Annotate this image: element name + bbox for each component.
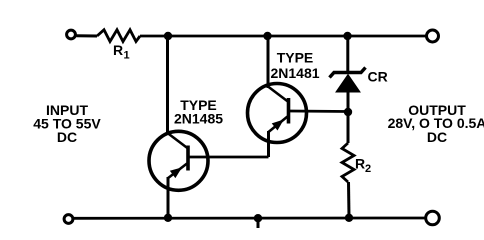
transistor Q2 collector stroke	[268, 87, 289, 103]
transistor Q2 emitter arrow	[273, 121, 282, 129]
input terminal bottom-left	[64, 215, 73, 224]
svg-text:2N1481: 2N1481	[270, 65, 319, 81]
transistor Q1 base bar	[186, 146, 190, 171]
resistor R1	[97, 30, 140, 42]
wire: CR to R2	[347, 91, 350, 143]
wire top rail: R1 to output terminal	[140, 35, 426, 38]
label TYPE 2N1481	[270, 50, 319, 82]
zener diode CR cathode bar	[330, 68, 366, 78]
transistor Q1 collector stroke	[168, 133, 189, 149]
label R1	[113, 42, 130, 62]
wire: stub below bottom rail	[257, 218, 260, 228]
input terminal top-left	[67, 30, 76, 39]
wire: R2 to bottom rail	[347, 182, 351, 217]
wire: Q2 emitter down to Q1 base net	[267, 131, 270, 157]
wire: Q1 emitter to bottom rail	[167, 177, 170, 217]
svg-text:2: 2	[365, 163, 371, 175]
svg-text:1: 1	[124, 50, 130, 62]
svg-text:DC: DC	[57, 129, 77, 145]
junction node: bottom rail / R2	[345, 214, 353, 222]
label INPUT 45 TO 55V DC	[33, 102, 101, 145]
transistor Q1 emitter arrow	[171, 169, 180, 177]
zener diode CR anode triangle	[336, 75, 360, 93]
wire: Q1 base to Q2 emitter	[188, 156, 269, 159]
label R2	[355, 156, 371, 176]
transistor Q2 TYPE 2N1481 body	[248, 84, 307, 143]
transistor Q1 emitter stroke	[168, 164, 188, 179]
label OUTPUT 28V O TO 0.5A DC	[388, 102, 484, 145]
wire: Q2 base lead	[289, 110, 348, 113]
wire: CR top lead	[346, 36, 349, 71]
svg-text:R: R	[113, 42, 123, 58]
svg-text:DC: DC	[427, 129, 447, 145]
junction node: top rail / Q1 collector	[164, 32, 172, 40]
svg-text:R: R	[355, 156, 365, 172]
svg-text:TYPE: TYPE	[277, 50, 314, 66]
junction node: bottom rail stub	[254, 214, 262, 222]
wire bottom rail	[74, 217, 425, 220]
transistor Q2 emitter stroke	[269, 117, 288, 133]
label TYPE 2N1485	[174, 97, 223, 127]
svg-text:2N1485: 2N1485	[174, 111, 223, 127]
svg-text:CR: CR	[368, 69, 388, 85]
transistor Q1 TYPE 2N1485 body	[149, 131, 208, 190]
wire: Q2 collector lead	[267, 36, 270, 88]
wire top rail: terminal to R1	[77, 34, 98, 37]
wire: Q1 collector lead	[166, 36, 169, 134]
transistor Q2 base bar	[287, 98, 291, 124]
resistor R2	[342, 143, 354, 182]
output terminal top-right	[427, 30, 439, 42]
junction node: bottom rail / Q1 emitter	[164, 214, 172, 222]
junction node: top rail / CR	[343, 32, 351, 40]
output terminal bottom-right	[426, 211, 440, 225]
junction node: top rail / Q2 collector	[263, 32, 271, 40]
junction node: Q2 base / CR / R2	[344, 108, 352, 116]
